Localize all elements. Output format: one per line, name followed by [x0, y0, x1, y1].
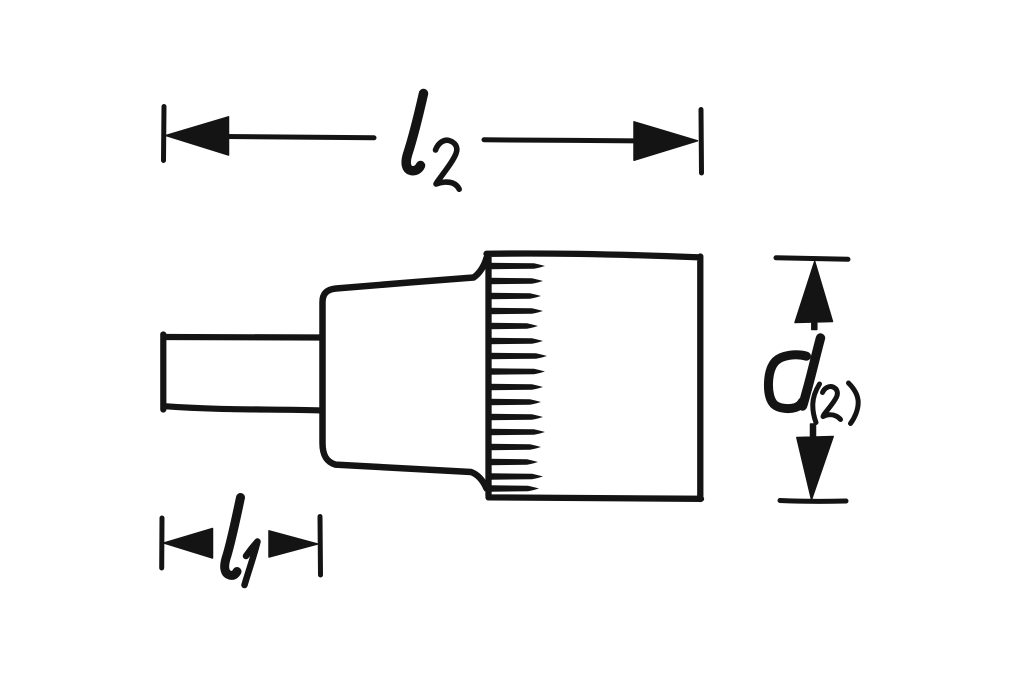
dimension d(2): top extension tick	[776, 258, 848, 260]
socket: tapered collar outline	[323, 258, 487, 489]
dimension d(2): up arrowhead	[795, 262, 833, 330]
dimension l2: label l	[406, 94, 423, 171]
socket: square drive shank left edge	[160, 335, 166, 410]
dimension d(2): label d stem	[803, 338, 821, 406]
dimension l2: right arrowhead	[634, 122, 698, 161]
dimension l1: label subscript 1	[245, 542, 258, 586]
dimension d(2): down arrowhead	[797, 424, 833, 500]
dimension d(2): label d bowl	[768, 355, 806, 409]
dimension l2: label subscript 2	[436, 140, 460, 189]
socket: square drive shank top edge	[164, 334, 322, 341]
dimension l2: left arrowhead	[166, 117, 229, 155]
socket: square drive shank bottom edge	[165, 406, 323, 410]
dimension l1: right extension tick	[318, 517, 324, 576]
dimension l1: label l	[225, 498, 241, 576]
dimension l1: left arrowhead	[164, 529, 213, 559]
dimension d(2): label subscript close paren	[849, 383, 859, 424]
dimension l1: left extension tick	[159, 518, 164, 568]
dimension l2: left extension tick	[161, 107, 167, 161]
dimension l2: left line segment	[225, 137, 374, 138]
dimension l2: right extension tick	[699, 110, 705, 174]
socket: knurled body rectangle	[487, 253, 702, 499]
dimension l2: right line segment	[484, 140, 650, 141]
dimension d(2): label subscript 2	[823, 387, 841, 420]
dimension d(2): label subscript open paren	[813, 384, 820, 423]
socket: knurling teeth	[488, 263, 548, 492]
dimension l1: right arrowhead	[269, 531, 318, 557]
dimension d(2): bottom extension tick	[780, 498, 846, 504]
